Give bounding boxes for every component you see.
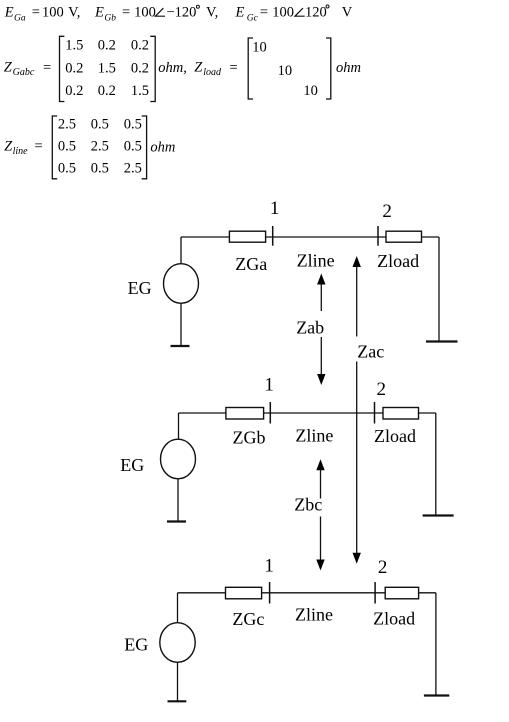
svg-text:0.5: 0.5 <box>58 139 76 155</box>
source EG phase a (ellipse) <box>164 264 199 304</box>
wire: phase a top horizontal right segment <box>422 236 440 238</box>
svg-text:1.5: 1.5 <box>65 38 83 54</box>
wire: phase a left vertical drop to source <box>180 237 182 264</box>
label: Zbc <box>294 495 322 515</box>
resistor Zload phase c (box) <box>385 587 418 599</box>
label: equation E_Gb = 100 angle -120 deg V <box>94 5 218 24</box>
resistor Zload phase b (box) <box>383 408 419 420</box>
resistor ZGa (box) <box>229 231 265 242</box>
svg-text:Gb: Gb <box>104 14 116 24</box>
label: equation Z_Gabc matrix <box>4 36 187 101</box>
wire: phase c horizontal left segment <box>178 592 226 594</box>
svg-text:ZGa: ZGa <box>235 254 267 274</box>
svg-text:=: = <box>35 139 43 155</box>
svg-text:E: E <box>94 5 104 21</box>
svg-text:10: 10 <box>303 83 318 99</box>
label: node number 1 phase c <box>264 555 274 576</box>
wire: phase a right vertical drop <box>438 237 440 341</box>
svg-text:=: = <box>32 5 40 21</box>
svg-text:=: = <box>230 60 238 76</box>
svg-text:1.5: 1.5 <box>131 83 149 99</box>
svg-text:=: = <box>122 5 130 21</box>
label: EG phase b <box>120 455 144 475</box>
svg-text:2.5: 2.5 <box>58 117 76 133</box>
svg-text:Z: Z <box>194 60 203 76</box>
svg-text:10: 10 <box>278 63 293 79</box>
label: Zload phase a <box>377 251 419 271</box>
svg-text:Zline: Zline <box>295 604 333 624</box>
svg-text:=: = <box>260 5 268 21</box>
svg-text:ZGb: ZGb <box>233 428 266 448</box>
node 1 phase b (tick) <box>269 402 271 424</box>
wire: phase b horizontal middle segment <box>264 412 383 414</box>
svg-text:ZGc: ZGc <box>232 609 264 629</box>
label: equation Z_line matrix <box>4 116 175 179</box>
label: Zline phase a <box>297 251 335 271</box>
svg-text:0.2: 0.2 <box>98 83 116 99</box>
svg-text:1: 1 <box>264 555 274 576</box>
svg-text:120: 120 <box>305 5 327 21</box>
svg-text:=: = <box>43 60 51 76</box>
wire: phase b horizontal left segment <box>179 412 226 414</box>
node 2 phase a (tick) <box>377 226 379 246</box>
label: Zac <box>357 342 384 362</box>
label: ZGa <box>235 254 267 274</box>
svg-text:2: 2 <box>378 557 388 578</box>
svg-text:V,: V, <box>68 5 80 21</box>
arrow Zac double-headed between phase a and c <box>353 256 361 564</box>
wire: phase c left vertical drop to source <box>177 593 179 623</box>
label: Zload phase c <box>373 608 415 628</box>
label: equation E_Ga = 100 V <box>4 5 81 24</box>
svg-text:0.2: 0.2 <box>98 38 116 54</box>
svg-text:ohm,: ohm, <box>158 60 187 76</box>
svg-text:Zload: Zload <box>373 608 415 628</box>
svg-text:2: 2 <box>382 201 392 222</box>
source EG phase c (ellipse) <box>160 623 195 663</box>
svg-text:E: E <box>4 5 14 21</box>
label: EG phase a <box>128 278 152 298</box>
svg-text:EG: EG <box>120 455 144 475</box>
svg-text:0.2: 0.2 <box>131 60 149 76</box>
svg-text:0.5: 0.5 <box>91 117 109 133</box>
label: ZGb <box>233 428 266 448</box>
resistor ZGc (box) <box>226 587 262 599</box>
node 1 phase c (tick) <box>269 582 271 604</box>
svg-text:Zline: Zline <box>295 426 333 446</box>
source EG phase b (ellipse) <box>161 439 196 479</box>
wire: phase b left vertical drop to source <box>178 413 180 439</box>
svg-text:0.2: 0.2 <box>65 60 83 76</box>
label: node number 1 phase a <box>270 198 280 219</box>
arrow Zab double-headed between phase a and b <box>317 274 325 386</box>
svg-text:EG: EG <box>128 278 152 298</box>
wire: phase b source to ground <box>177 479 179 521</box>
svg-text:1: 1 <box>270 198 280 219</box>
label: Zab <box>296 318 324 338</box>
svg-text:V,: V, <box>206 5 218 21</box>
svg-text:Z: Z <box>4 60 13 76</box>
svg-text:2.5: 2.5 <box>124 161 142 177</box>
label: EG phase c <box>124 635 148 655</box>
wire: phase c horizontal right segment <box>419 592 436 594</box>
node 2 phase b (tick) <box>374 402 376 424</box>
ground: phase c source ground bar <box>168 700 187 702</box>
wire: phase c right vertical drop <box>435 593 437 696</box>
svg-text:Zab: Zab <box>296 318 324 338</box>
svg-text:Ga: Ga <box>14 14 26 24</box>
svg-text:0.5: 0.5 <box>124 139 142 155</box>
svg-text:100: 100 <box>134 5 156 21</box>
node 1 phase a (tick) <box>272 226 274 246</box>
svg-text:Gabc: Gabc <box>13 67 35 78</box>
label: Zline phase c <box>295 604 333 624</box>
svg-text:0.2: 0.2 <box>65 83 83 99</box>
svg-text:line: line <box>13 146 29 157</box>
wire: phase a source to ground <box>180 303 182 346</box>
label: equation E_Gc = 100 angle 120 deg V <box>235 5 353 24</box>
ground: phase a load ground bar <box>426 340 458 342</box>
arrow Zbc double-headed between phase b and c <box>316 459 324 570</box>
wire: phase c source to ground <box>177 662 179 701</box>
svg-text:E: E <box>235 5 245 21</box>
svg-text:0.2: 0.2 <box>131 38 149 54</box>
svg-text:−120: −120 <box>167 5 197 21</box>
node 2 phase c (tick) <box>374 582 376 604</box>
wire: phase a top horizontal middle segment <box>266 236 386 238</box>
svg-text:2: 2 <box>377 379 387 400</box>
ground: phase a source ground bar <box>171 345 190 347</box>
label: node number 1 phase b <box>264 375 274 396</box>
svg-text:ohm: ohm <box>150 140 175 156</box>
svg-text:ohm: ohm <box>336 60 361 76</box>
svg-text:Zload: Zload <box>377 251 419 271</box>
svg-text:10: 10 <box>252 40 266 56</box>
label: ZGc <box>232 609 264 629</box>
wire: phase c horizontal middle segment <box>262 592 386 594</box>
ground: phase b load ground bar <box>423 514 454 516</box>
label: Zline phase b <box>295 426 333 446</box>
label: node number 2 phase c <box>378 557 388 578</box>
svg-text:1.5: 1.5 <box>98 60 116 76</box>
svg-text:100: 100 <box>272 5 294 21</box>
svg-text:0.5: 0.5 <box>124 117 142 133</box>
ground: phase c load ground bar <box>424 694 449 696</box>
svg-text:0.5: 0.5 <box>58 161 76 177</box>
svg-text:Gc: Gc <box>247 14 259 24</box>
wire: phase a top horizontal left segment <box>181 236 229 238</box>
svg-text:1: 1 <box>264 375 274 396</box>
wire: phase b horizontal right segment <box>419 412 436 414</box>
wire: phase b right vertical drop <box>435 413 437 515</box>
resistor ZGb (box) <box>226 408 264 420</box>
svg-text:V: V <box>342 5 353 21</box>
svg-text:0.5: 0.5 <box>91 161 109 177</box>
svg-text:Zline: Zline <box>297 251 335 271</box>
label: Zload phase b <box>374 426 416 446</box>
label: node number 2 phase b <box>377 379 387 400</box>
svg-text:Zac: Zac <box>357 342 384 362</box>
svg-text:EG: EG <box>124 635 148 655</box>
svg-text:Zbc: Zbc <box>294 495 322 515</box>
svg-text:2.5: 2.5 <box>91 139 109 155</box>
svg-text:Zload: Zload <box>374 426 416 446</box>
svg-text:load: load <box>203 67 222 78</box>
label: equation Z_load matrix <box>194 38 361 99</box>
label: node number 2 phase a <box>382 201 392 222</box>
ground: phase b source ground bar <box>167 520 186 522</box>
svg-text:100: 100 <box>42 5 64 21</box>
resistor Zload phase a (box) <box>386 231 422 242</box>
